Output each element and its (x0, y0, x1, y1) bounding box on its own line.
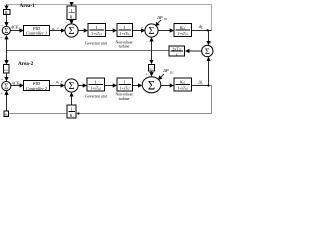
svg-text:R₂: R₂ (68, 113, 74, 118)
node Df2 junction (207, 84, 209, 86)
wire a12 mid to sum2b (151, 71, 153, 76)
wire a12 left to ACE2 sum (6, 73, 8, 80)
fraction bars (69, 13, 191, 112)
svg-text:turbine: turbine (119, 97, 130, 101)
wire turbine2 to sum2b (133, 85, 142, 87)
signs (1, 21, 213, 97)
svg-text:+: + (141, 26, 143, 30)
svg-text:+: + (1, 78, 3, 82)
summing junction sum2b (142, 77, 161, 93)
svg-text:1+sTg1: 1+sTg1 (91, 32, 102, 36)
wire Kp1 to Df1 (192, 30, 212, 32)
wire DPtie down into a12 left (6, 51, 8, 64)
svg-text:+: + (1, 36, 3, 40)
wire Df1 to tie sum (208, 31, 210, 45)
svg-text:ACE₁: ACE₁ (10, 25, 21, 30)
svg-text:Σ: Σ (149, 26, 155, 37)
svg-text:Controller 2: Controller 2 (26, 86, 48, 91)
svg-text:Governor unit: Governor unit (85, 41, 108, 45)
wire topline into B1 (6, 5, 8, 9)
svg-text:Δf₂: Δf₂ (198, 81, 204, 85)
summing junction ACE2 (2, 81, 11, 90)
block a12 mid (148, 64, 154, 71)
wire DPtie down into a12 mid (151, 51, 153, 64)
block governor 2 (87, 78, 105, 91)
wire sum1a to governor1 (78, 30, 87, 32)
svg-text:1: 1 (123, 80, 125, 85)
wire Kp2 to Df2 (192, 85, 209, 87)
svg-text:turbine: turbine (119, 45, 130, 49)
wire Df2 up to tie sum (208, 58, 210, 86)
block turbine 1 (117, 24, 133, 37)
svg-text:Governor unit: Governor unit (85, 94, 108, 98)
block 1/R1 (67, 6, 76, 20)
svg-text:+: + (1, 92, 3, 96)
wire tie sum to 2piT12 block (186, 50, 202, 52)
block turbine 2 (117, 78, 133, 91)
svg-text:−: − (65, 20, 68, 25)
block B2 (4, 111, 9, 116)
svg-text:u₁ +: u₁ + (52, 26, 59, 31)
svg-text:1: 1 (70, 107, 72, 112)
block B1 (4, 10, 11, 15)
svg-text:Σ: Σ (69, 81, 75, 92)
svg-text:−: − (211, 58, 213, 62)
svg-text:D2: D2 (169, 70, 174, 74)
svg-text:1+sTt2: 1+sTt2 (120, 86, 131, 90)
wire DPD2 into sum2b (158, 74, 163, 79)
svg-text:Area-2: Area-2 (18, 61, 34, 67)
svg-text:+: + (210, 41, 212, 45)
svg-text:D1: D1 (163, 17, 168, 21)
svg-text:−: − (156, 21, 158, 25)
block PID controller 1 (24, 26, 50, 36)
wire topline into R1 (71, 4, 73, 7)
svg-text:−: − (65, 93, 67, 97)
summing junction sum1a (65, 24, 78, 37)
summing junction sum1b (145, 24, 158, 37)
wire PID1 to sum1a (50, 30, 65, 32)
svg-text:1+sTp1: 1+sTp1 (177, 32, 188, 36)
svg-text:Σ: Σ (4, 28, 8, 35)
svg-text:ΔP: ΔP (156, 15, 163, 20)
summing junction ACE1 (2, 26, 10, 34)
svg-text:ΔP: ΔP (162, 68, 169, 73)
wire ACE1 sum to PID1 (11, 30, 23, 32)
svg-text:+: + (146, 73, 148, 77)
svg-text:1: 1 (123, 25, 125, 30)
wire B2 up to ACE2 sum (6, 91, 8, 111)
wire turbine1 to sum1b (133, 30, 145, 32)
wire top feedback line Df1 (7, 5, 212, 31)
wire sum2a to governor2 (78, 85, 86, 87)
node Df1 junction (207, 29, 209, 31)
svg-text:Σ: Σ (4, 83, 8, 91)
svg-text:1: 1 (94, 80, 96, 85)
block Kp1 power system 1 (174, 24, 192, 37)
node R2 tap junction (77, 112, 79, 114)
summing junction tie-line sum (202, 45, 213, 56)
svg-text:Δf₁: Δf₁ (198, 25, 204, 29)
svg-text:Σ: Σ (148, 78, 155, 92)
svg-text:Controller 1: Controller 1 (26, 31, 47, 36)
svg-text:−: − (146, 40, 148, 44)
wire PID2 to sum2a (50, 85, 65, 87)
block PID controller 2 (24, 81, 50, 91)
svg-text:ACE₂: ACE₂ (10, 81, 21, 86)
block Kp2 power system 2 (174, 78, 192, 91)
wire sum1b to Kp1 (158, 30, 173, 32)
wire B1 to ACE1 sum (6, 15, 8, 26)
wire ACE2 sum to PID2 (11, 85, 23, 87)
svg-text:1+sTt1: 1+sTt1 (120, 32, 131, 36)
svg-text:1: 1 (95, 25, 97, 30)
svg-text:−: − (159, 74, 161, 78)
svg-text:+: + (1, 24, 3, 28)
wire R1 to sum1a (71, 20, 73, 24)
wire bottom feedback line Df2 (10, 86, 212, 114)
svg-text:1+sTg2: 1+sTg2 (90, 86, 101, 90)
block 1/R2 (67, 105, 76, 118)
block governor 1 (88, 24, 106, 37)
light feedback wires (7, 5, 212, 31)
wire governor1 to turbine1 (106, 30, 117, 32)
svg-text:Σ: Σ (69, 26, 75, 37)
summing junction sum2a (65, 79, 78, 92)
wire R2 up to sum2a (71, 93, 73, 105)
wire DPD1 into sum1b (156, 20, 161, 26)
sigma glyphs (4, 26, 210, 92)
block a12 left (4, 65, 9, 74)
svg-text:Area-1: Area-1 (20, 3, 36, 9)
svg-text:1: 1 (70, 8, 72, 13)
wire DPtie up into sum1b (151, 38, 153, 50)
svg-text:R₁: R₁ (68, 14, 74, 19)
wire DPtie long line (7, 50, 170, 52)
svg-text:u₂ +: u₂ + (56, 79, 63, 84)
svg-text:1+sTp2: 1+sTp2 (177, 86, 188, 90)
block 2piT12/s (169, 46, 185, 56)
svg-text:Σ: Σ (205, 46, 210, 56)
wire sum2b to Kp2 (161, 85, 173, 87)
wire DPtie up into ACE1 sum (6, 36, 8, 51)
wire governor2 to turbine2 (105, 85, 117, 87)
